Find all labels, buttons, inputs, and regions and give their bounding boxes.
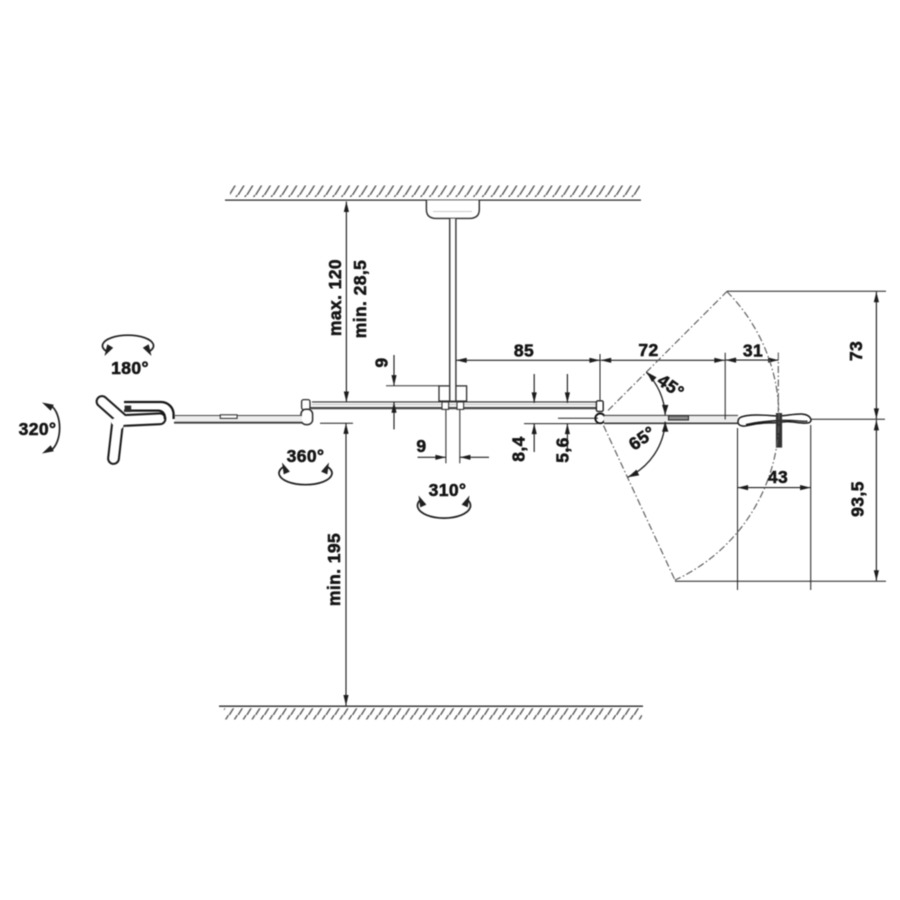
dim 43 horizontal <box>738 487 811 489</box>
extension line fan top <box>727 290 886 292</box>
right lower arm <box>604 415 738 423</box>
monitor stem clamp <box>776 413 782 448</box>
dim 8,4 arrows <box>533 374 535 403</box>
extension lines near elbow <box>558 417 598 419</box>
dim 9 vertical (hub height) <box>393 355 395 386</box>
dim 73 vertical <box>875 292 877 419</box>
svg-text:min. 28,5: min. 28,5 <box>350 260 370 339</box>
upper horizontal arm <box>311 402 598 408</box>
ceiling line <box>225 199 641 201</box>
svg-text:9: 9 <box>372 357 392 367</box>
svg-text:8,4: 8,4 <box>509 436 529 462</box>
svg-text:320°: 320° <box>19 419 57 439</box>
surgical light head (Y shape) <box>102 402 160 459</box>
floor line <box>219 705 643 707</box>
rotation arrow 310 deg <box>418 499 471 518</box>
dim 31 horizontal <box>726 359 779 361</box>
extension line fan bottom <box>675 580 886 582</box>
svg-text:72: 72 <box>638 340 658 360</box>
rotation arrow 360 deg <box>279 467 332 485</box>
svg-text:360°: 360° <box>287 446 325 466</box>
rotation arrow 320 deg <box>51 406 60 451</box>
stem collar blocks under hub <box>442 402 449 409</box>
svg-text:73: 73 <box>846 341 866 361</box>
extension line monitor right <box>811 418 885 420</box>
swivel range radius line 45 deg <box>608 291 727 410</box>
dim max.120/min.28,5 vertical line <box>345 202 347 403</box>
central hub block <box>439 386 467 401</box>
svg-text:min. 195: min. 195 <box>324 533 344 606</box>
svg-text:max. 120: max. 120 <box>325 259 345 336</box>
swivel range radius line 65 deg <box>604 426 676 581</box>
elbow joint (right) <box>596 401 603 412</box>
extension line at elbow x=600 <box>599 354 601 400</box>
floor hatch <box>224 708 642 719</box>
45 deg angle arc <box>646 372 665 415</box>
stem below hub <box>445 409 447 463</box>
bracket mount block <box>125 406 132 412</box>
ceiling hatch <box>230 186 640 198</box>
svg-text:93,5: 93,5 <box>848 481 868 517</box>
dim 72 horizontal <box>601 359 725 361</box>
dim 85 horizontal <box>456 359 600 361</box>
dim 9 horizontal (stem width) <box>418 456 446 458</box>
light head suspension bracket <box>124 402 174 419</box>
dim 93,5 vertical <box>875 420 877 581</box>
extension line at arm bottom left <box>320 422 353 424</box>
rotation arrow 180 deg <box>103 335 154 351</box>
svg-text:31: 31 <box>743 341 763 361</box>
65 deg angle arc <box>628 422 665 478</box>
dim min.195 vertical line <box>345 423 347 705</box>
suspension pole <box>450 219 456 401</box>
extension line x=725 <box>724 353 726 420</box>
svg-text:5,6: 5,6 <box>553 437 573 463</box>
ceiling canopy <box>426 200 479 218</box>
left shoulder joint <box>302 400 310 410</box>
svg-text:180°: 180° <box>111 358 149 378</box>
svg-text:85: 85 <box>514 341 534 361</box>
extension lines 43 <box>737 428 739 590</box>
monitor pivot centerline <box>777 353 779 413</box>
dim 5,6 arrows <box>566 374 568 403</box>
hub top extension line <box>386 385 439 387</box>
flat monitor (edge-on) <box>738 414 811 426</box>
svg-text:310°: 310° <box>429 480 467 500</box>
svg-text:43: 43 <box>768 467 788 487</box>
swivel range fan arc <box>675 292 779 581</box>
handle detail on left arm <box>220 415 237 419</box>
monitor bracket segment on right arm <box>669 416 689 420</box>
svg-text:9: 9 <box>416 436 426 456</box>
left lower arm <box>174 416 302 423</box>
